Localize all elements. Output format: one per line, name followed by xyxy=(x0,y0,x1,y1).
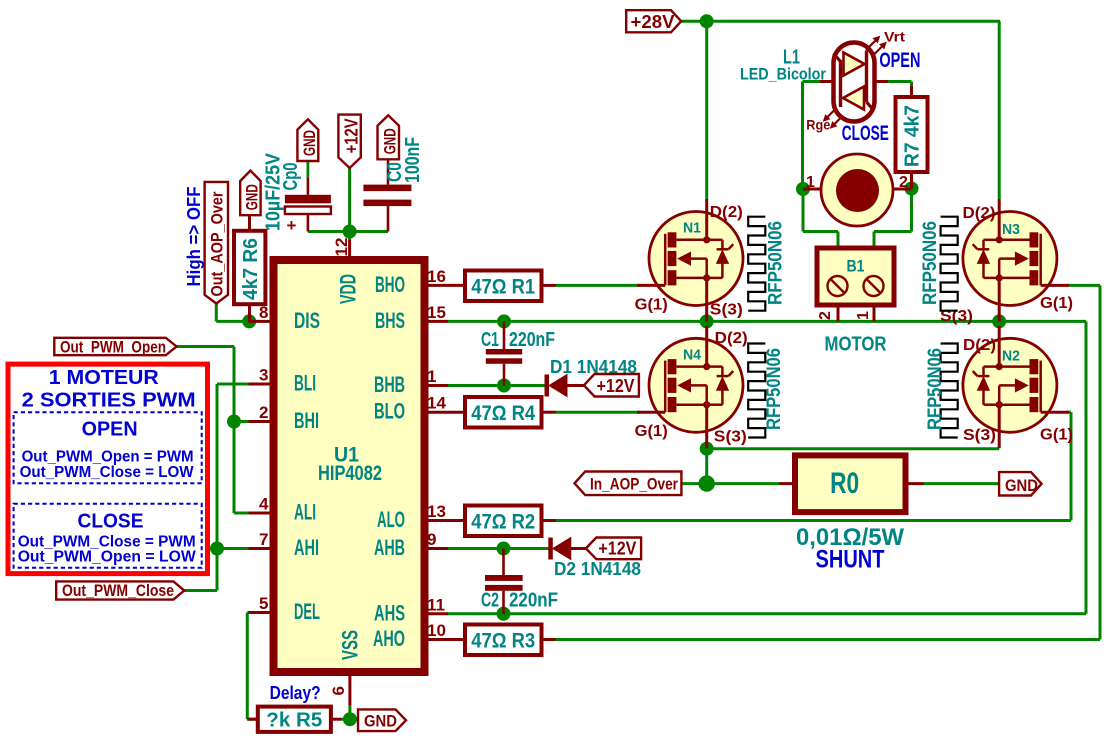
svg-text:GND: GND xyxy=(300,130,319,156)
power flag GND at R5 xyxy=(358,709,406,731)
svg-text:RFP50N06: RFP50N06 xyxy=(764,348,785,430)
svg-text:CLOSE: CLOSE xyxy=(842,122,889,145)
junction C1/BHS xyxy=(497,314,511,328)
svg-text:220nF: 220nF xyxy=(509,590,558,612)
svg-text:D(2): D(2) xyxy=(963,205,996,222)
note box 1 MOTEUR xyxy=(8,364,208,573)
wire motor pin 2 to B1 pin 1 xyxy=(874,189,912,249)
svg-text:GND: GND xyxy=(243,184,262,210)
svg-text:Out_AOP_Over: Out_AOP_Over xyxy=(208,191,227,296)
junction AHI xyxy=(210,542,224,556)
pin 12 VDD xyxy=(332,238,361,304)
svg-text:D(2): D(2) xyxy=(715,330,748,347)
N4 package text RFP50N06 xyxy=(764,348,785,430)
L1 emission arrows Vrt xyxy=(866,29,905,57)
svg-text:G(1): G(1) xyxy=(635,423,668,440)
resistor R0 shunt xyxy=(779,455,924,512)
power flag +28V xyxy=(626,10,681,32)
svg-text:10: 10 xyxy=(427,621,446,640)
svg-text:S(3): S(3) xyxy=(963,427,996,444)
power flag +12V at D1 xyxy=(584,374,639,397)
svg-text:BLI: BLI xyxy=(294,371,316,396)
svg-text:N2: N2 xyxy=(1002,348,1020,365)
svg-text:High => OFF: High => OFF xyxy=(184,187,204,287)
svg-text:OPEN: OPEN xyxy=(879,49,920,72)
junction motor pin 2 / R7 xyxy=(905,182,919,196)
N1 package drawing xyxy=(748,217,765,311)
svg-text:RFP50N06: RFP50N06 xyxy=(766,221,787,305)
pin 9 AHB xyxy=(374,530,448,560)
svg-text:Out_PWM_Open: Out_PWM_Open xyxy=(60,337,166,356)
text 1 MOTEUR xyxy=(49,367,160,389)
dashed box OPEN xyxy=(14,412,202,483)
text CLOSE xyxy=(78,510,144,532)
capacitor C2 220nF xyxy=(481,549,558,614)
svg-text:LED_Bicolor: LED_Bicolor xyxy=(740,65,826,84)
junction DIS/R6 xyxy=(242,314,256,328)
power flag GND above C0 xyxy=(378,115,400,159)
N3 labels xyxy=(940,205,1073,325)
capacitor C1 220nF xyxy=(481,321,555,385)
svg-text:AHI: AHI xyxy=(294,535,319,560)
svg-text:S(3): S(3) xyxy=(710,302,743,319)
svg-text:BHB: BHB xyxy=(374,372,405,397)
resistor R5 ?k xyxy=(247,707,341,732)
svg-text:OPEN: OPEN xyxy=(82,419,138,441)
text Out_PWM_Close = PWM xyxy=(18,534,196,551)
junction N3 source / N2 drain xyxy=(992,314,1006,328)
svg-text:DEL: DEL xyxy=(294,599,320,624)
transistor N3 RFP50N06 xyxy=(963,199,1069,321)
text High => OFF xyxy=(184,187,204,287)
svg-text:1 MOTEUR: 1 MOTEUR xyxy=(49,367,160,389)
resistor R1 47R xyxy=(448,271,556,302)
svg-text:G(1): G(1) xyxy=(1040,427,1073,444)
svg-text:+12V: +12V xyxy=(597,376,635,396)
svg-text:Out_PWM_Open = PWM: Out_PWM_Open = PWM xyxy=(22,448,194,465)
wire BLO gate N4 xyxy=(556,411,640,414)
N1 package text RFP50N06 xyxy=(766,221,787,305)
label Out_AOP_Over xyxy=(205,182,228,304)
text Out_PWM_Open = LOW xyxy=(18,548,197,565)
svg-text:2: 2 xyxy=(259,403,268,422)
resistor R3 47R xyxy=(448,625,556,656)
svg-text:7: 7 xyxy=(259,530,268,549)
svg-text:AHB: AHB xyxy=(374,535,405,560)
transistor N1 RFP50N06 xyxy=(637,199,743,321)
svg-text:47Ω R2: 47Ω R2 xyxy=(471,511,535,534)
resistor R2 47R xyxy=(448,506,556,537)
wire R0 to GND xyxy=(924,482,999,485)
wire BHO gate N1 xyxy=(556,284,640,287)
wire Out_PWM_Close to BLI and AHI xyxy=(184,384,248,591)
op-amp U1 HIP4082 body xyxy=(274,260,425,672)
junction N1 source / N4 drain xyxy=(700,314,714,328)
junction AHB/C2 xyxy=(497,542,511,556)
wire AHB xyxy=(448,547,549,550)
svg-text:GND: GND xyxy=(380,128,399,154)
svg-text:2: 2 xyxy=(899,174,908,191)
svg-text:Rge: Rge xyxy=(806,117,830,133)
text OPEN at LED xyxy=(879,49,920,72)
svg-text:6: 6 xyxy=(329,686,348,695)
svg-text:1: 1 xyxy=(855,311,872,320)
wire motor pin 1 to B1 pin 2 xyxy=(803,189,838,248)
svg-text:15: 15 xyxy=(427,303,446,322)
pin 8 DIS xyxy=(249,303,321,333)
svg-text:BHI: BHI xyxy=(294,408,319,433)
svg-text:C1: C1 xyxy=(481,329,499,351)
motor symbol xyxy=(803,154,912,226)
junction +12V/VDD xyxy=(343,225,357,239)
svg-text:D(2): D(2) xyxy=(963,337,996,354)
svg-text:C2: C2 xyxy=(481,590,499,612)
svg-text:DIS: DIS xyxy=(294,308,320,333)
N2 labels xyxy=(963,337,1073,444)
svg-text:5: 5 xyxy=(259,594,268,613)
svg-text:RFP50N06: RFP50N06 xyxy=(925,348,946,430)
svg-text:GND: GND xyxy=(364,712,397,731)
junction C2/AHS xyxy=(497,607,511,621)
svg-text:47Ω R3: 47Ω R3 xyxy=(471,630,535,653)
wire N1 drain xyxy=(705,21,708,199)
text Delay? xyxy=(270,683,321,703)
pin 5 DEL xyxy=(249,594,321,624)
LED L1 bicolor xyxy=(820,43,888,122)
pin 16 BHO xyxy=(375,267,448,297)
diode D1 1N4148 xyxy=(545,357,638,397)
U1 reference text xyxy=(334,444,359,467)
label In_AOP_Over xyxy=(575,472,682,496)
pin 11 AHS xyxy=(374,595,448,625)
svg-text:AHS: AHS xyxy=(374,600,405,625)
text CLOSE at LED xyxy=(842,122,889,145)
junction In_AOP_Over node xyxy=(699,475,715,491)
text MOTOR xyxy=(825,334,887,356)
U1 value HIP4082 xyxy=(318,462,382,485)
pin 4 ALI xyxy=(249,495,317,525)
L1 value LED_Bicolor xyxy=(740,65,826,84)
power flag GND above R6 xyxy=(240,171,261,216)
svg-text:+: + xyxy=(287,216,297,235)
power flag GND at R0 xyxy=(999,472,1042,495)
svg-text:Delay?: Delay? xyxy=(270,683,321,703)
resistor R6 4k7 xyxy=(234,215,265,321)
wire ALO to N2 gate xyxy=(556,412,1071,520)
wire node to R0 xyxy=(707,482,779,485)
svg-text:1: 1 xyxy=(427,367,436,386)
diode D2 1N4148 xyxy=(548,538,641,580)
svg-text:4k7 R6: 4k7 R6 xyxy=(240,238,262,300)
N2 package text RFP50N06 xyxy=(925,348,946,430)
svg-text:G(1): G(1) xyxy=(1040,295,1073,312)
svg-text:12: 12 xyxy=(332,238,351,257)
svg-text:BHS: BHS xyxy=(375,308,405,333)
svg-text:11: 11 xyxy=(427,595,445,614)
transistor N4 RFP50N06 xyxy=(637,326,743,448)
N4 labels xyxy=(635,330,748,446)
svg-text:14: 14 xyxy=(427,394,446,413)
pin 14 BLO xyxy=(374,394,448,424)
svg-text:220nF: 220nF xyxy=(509,329,555,351)
svg-text:100nF: 100nF xyxy=(402,137,424,183)
svg-text:Vrt: Vrt xyxy=(884,29,905,45)
pin 2 BHI xyxy=(249,403,320,433)
svg-text:BLO: BLO xyxy=(374,399,405,424)
svg-text:B1: B1 xyxy=(847,257,865,276)
text SHUNT xyxy=(816,546,885,574)
text 2 SORTIES PWM xyxy=(22,390,196,412)
svg-text:1: 1 xyxy=(806,174,815,191)
L1 emission arrows Rge xyxy=(806,109,843,133)
svg-text:AHO: AHO xyxy=(373,626,405,651)
text OPEN xyxy=(82,419,138,441)
wire +12V rail xyxy=(308,168,388,240)
wire In_AOP_Over to node xyxy=(681,482,706,485)
svg-text:Out_PWM_Open = LOW: Out_PWM_Open = LOW xyxy=(18,548,197,565)
label Out_PWM_Close xyxy=(56,581,184,600)
capacitor C0 100nF xyxy=(363,137,424,232)
wire +28V rail top xyxy=(681,21,1000,199)
N2 package drawing xyxy=(941,344,958,438)
wire N2 drain stub xyxy=(998,321,1001,325)
connector B1 MOTOR xyxy=(817,248,894,321)
wire BHS motor-left rail xyxy=(448,321,1086,613)
N1 labels xyxy=(635,204,743,319)
wire DEL to R5 xyxy=(247,613,258,720)
N3 package text RFP50N06 xyxy=(920,221,941,305)
power flag +12V above VDD xyxy=(338,115,361,168)
svg-text:SHUNT: SHUNT xyxy=(816,546,885,574)
svg-text:HIP4082: HIP4082 xyxy=(318,462,382,485)
wire Out_PWM_Open to BHI and ALI xyxy=(177,347,249,514)
svg-text:VDD: VDD xyxy=(336,274,361,304)
svg-text:ALI: ALI xyxy=(294,500,316,525)
text shunt value 0,01R/5W xyxy=(796,524,904,551)
svg-text:G(1): G(1) xyxy=(635,297,668,314)
svg-text:In_AOP_Over: In_AOP_Over xyxy=(590,475,678,494)
wire AHO to N3 gate xyxy=(556,285,1100,639)
text Out_PWM_Close = LOW xyxy=(20,464,195,481)
svg-text:D(2): D(2) xyxy=(710,204,743,221)
svg-text:9: 9 xyxy=(427,530,436,549)
svg-text:+28V: +28V xyxy=(631,12,675,32)
pin 1 BHB xyxy=(374,367,448,397)
power flag GND above Cp0 xyxy=(297,119,319,161)
svg-text:N1: N1 xyxy=(683,220,701,237)
dashed box CLOSE xyxy=(14,504,202,568)
svg-text:2: 2 xyxy=(817,311,834,320)
svg-text:Out_PWM_Close = LOW: Out_PWM_Close = LOW xyxy=(20,464,195,481)
svg-text:13: 13 xyxy=(427,502,446,521)
svg-text:MOTOR: MOTOR xyxy=(825,334,887,356)
svg-text:16: 16 xyxy=(427,267,446,286)
svg-text:N4: N4 xyxy=(683,346,702,363)
svg-text:?k R5: ?k R5 xyxy=(266,710,322,732)
resistor R7 4k7 xyxy=(896,86,928,189)
junction BHB/C1 xyxy=(497,379,511,393)
svg-text:S(3): S(3) xyxy=(714,429,747,446)
svg-text:N3: N3 xyxy=(1002,221,1020,238)
capacitor Cp0 10uF/25V polarized xyxy=(263,152,331,235)
N3 package drawing xyxy=(941,217,958,311)
svg-text:CLOSE: CLOSE xyxy=(78,510,144,532)
wire BHB xyxy=(448,384,545,387)
text Out_PWM_Open = PWM xyxy=(22,448,194,465)
svg-text:47Ω R4: 47Ω R4 xyxy=(471,402,535,425)
svg-text:R7 4k7: R7 4k7 xyxy=(902,105,924,167)
junction N4 source xyxy=(700,442,714,456)
svg-text:D2 1N4148: D2 1N4148 xyxy=(554,559,641,579)
svg-text:R0: R0 xyxy=(830,467,859,500)
label Out_PWM_Open xyxy=(54,337,176,356)
svg-text:4: 4 xyxy=(259,495,269,514)
svg-text:47Ω R1: 47Ω R1 xyxy=(471,276,535,299)
wire N4 drain stub xyxy=(705,321,708,325)
svg-text:3: 3 xyxy=(259,366,268,385)
junction VSS/R5/GND xyxy=(343,712,357,726)
L1 reference xyxy=(783,47,800,69)
svg-text:Out_PWM_Close: Out_PWM_Close xyxy=(62,581,174,600)
svg-text:BHO: BHO xyxy=(375,272,405,297)
svg-text:2 SORTIES PWM: 2 SORTIES PWM xyxy=(22,390,196,412)
svg-text:VSS: VSS xyxy=(338,630,363,660)
wire Out_AOP_Over to DIS xyxy=(216,304,248,322)
wire VSS pin6 to GND xyxy=(342,705,359,719)
pin 13 ALO xyxy=(377,502,448,532)
wire LED right to R7 xyxy=(888,82,912,87)
pin 10 AHO xyxy=(373,621,448,651)
junction BHI xyxy=(227,415,241,429)
resistor R4 47R xyxy=(448,397,556,428)
svg-text:+12V: +12V xyxy=(342,118,362,153)
wire LED left to motor pin 1 xyxy=(803,82,821,190)
wire source rail N4-N2 xyxy=(707,449,1000,484)
junction motor pin 1 xyxy=(796,182,810,196)
svg-text:GND: GND xyxy=(1005,476,1038,495)
svg-text:ALO: ALO xyxy=(377,507,405,532)
pin 6 VSS xyxy=(329,630,363,705)
svg-text:+12V: +12V xyxy=(598,539,636,559)
svg-text:10µF/25V: 10µF/25V xyxy=(263,152,285,231)
N4 package drawing xyxy=(748,344,765,438)
junction +28V / N1 drain xyxy=(700,14,714,28)
transistor N2 RFP50N06 xyxy=(963,326,1069,448)
pin 15 BHS xyxy=(375,303,448,333)
power flag +12V at D2 xyxy=(586,538,641,560)
svg-text:RFP50N06: RFP50N06 xyxy=(920,221,941,305)
pin 3 BLI xyxy=(249,366,317,396)
pin 7 AHI xyxy=(249,530,320,560)
